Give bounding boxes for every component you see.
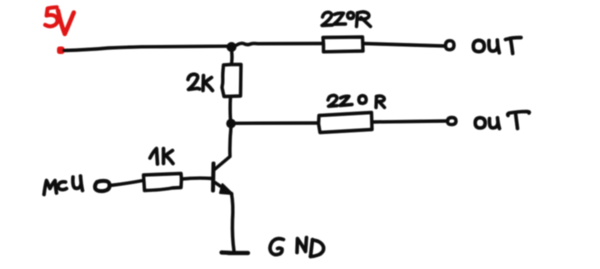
wire: R1 to OUT1 terminal [363, 44, 444, 47]
wire: R3 to OUT2 terminal [372, 121, 446, 122]
ground symbol bar [222, 250, 249, 255]
wire: node B down to transistor collector [215, 127, 232, 170]
resistor R4 1K body [144, 174, 182, 191]
transistor Q1 emitter stroke with arrow [215, 183, 233, 195]
label 5V (red supply label) [45, 7, 74, 34]
wire: R2 bottom to node B [228, 97, 232, 120]
5V terminal red dot [57, 47, 65, 55]
terminal OUT1 circle [446, 41, 455, 50]
wire: base to resistor R4 (1K) [182, 176, 213, 180]
label 1K [150, 149, 173, 165]
label OUT (bottom) [475, 112, 529, 129]
wire: 5V dot to node A [64, 46, 228, 50]
wire: MCU terminal to R4 [110, 181, 143, 186]
resistor R1 220R body [323, 37, 363, 52]
transistor Q1 base bar [211, 164, 216, 191]
label 220R (R3) [328, 95, 385, 107]
resistor R2 2K body [222, 65, 241, 97]
terminal MCU circle [95, 181, 110, 191]
wire: node A to resistor R1 [235, 43, 323, 46]
terminal OUT2 circle [448, 117, 457, 124]
node A junction dot [227, 42, 237, 52]
label GND [270, 238, 324, 257]
label MCU [44, 176, 83, 195]
resistor R3 220R body [319, 113, 373, 133]
wire: node A down to R2 (2K) top [230, 50, 234, 64]
wire: emitter to ground [232, 194, 235, 252]
label OUT (top) [473, 38, 521, 54]
label 220R (R1) [322, 12, 371, 27]
label 2K [188, 74, 213, 90]
wire: node B to resistor R3 [235, 121, 318, 125]
node B junction dot [226, 119, 236, 129]
